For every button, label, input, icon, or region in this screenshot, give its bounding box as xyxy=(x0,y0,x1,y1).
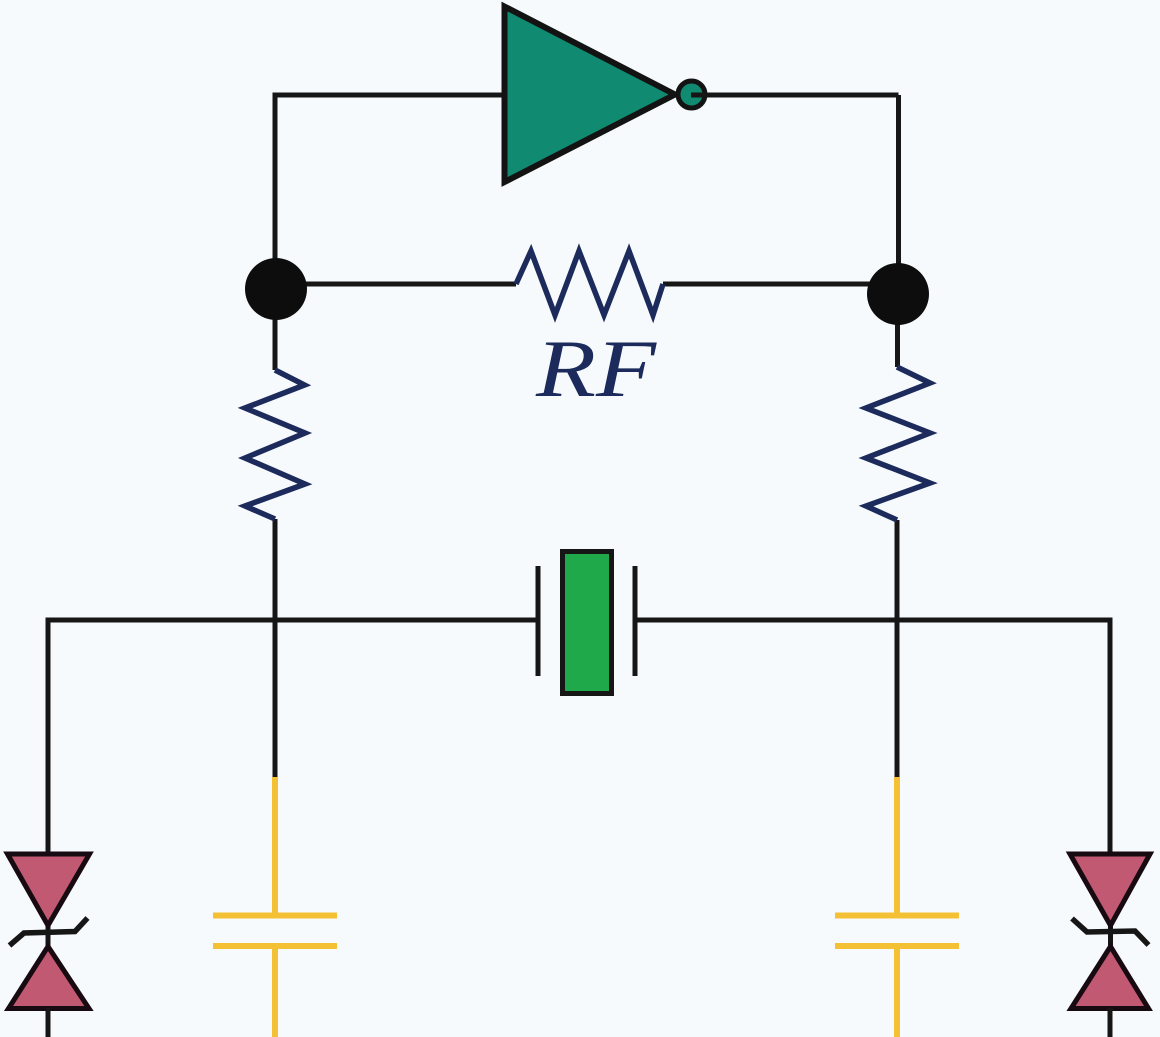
wire: resistor R2 down to capacitor C2 branch xyxy=(895,520,900,779)
capacitor C1 top plate xyxy=(213,913,337,919)
wire: left vertical from input corner down to node A xyxy=(273,93,278,290)
wire: resistor R1 down to capacitor C1 branch xyxy=(273,519,278,779)
wire: right vertical from output corner down to node B xyxy=(896,95,901,294)
TVS diode D2 zener bar xyxy=(1072,919,1149,946)
op-amp U1 inverter triangle xyxy=(505,7,676,183)
resistor RF zigzag xyxy=(516,251,663,315)
TVS diode D1 zener bar xyxy=(10,918,88,946)
wire: TVS D1 to bottom edge xyxy=(46,1008,51,1037)
TVS diode D2 upper triangle xyxy=(1070,854,1150,926)
wire: yellow lead into capacitor C1 xyxy=(272,777,278,914)
TVS diode D1 lower triangle xyxy=(9,947,90,1009)
wire: TVS D1 apex junction xyxy=(46,922,51,950)
wire: inverter input from left node up to inverter xyxy=(275,93,506,98)
resistor R1 zigzag xyxy=(245,370,305,519)
svg-text:RF: RF xyxy=(535,323,657,414)
wire: inverter output to right corner xyxy=(691,93,899,98)
wire: node A down to resistor R1 xyxy=(273,289,278,370)
wire: TVS D2 to bottom edge xyxy=(1108,1008,1113,1037)
wire: node A to RF resistor left lead xyxy=(290,282,516,287)
TVS diode D1 upper triangle xyxy=(8,854,90,926)
node B junction dot xyxy=(867,263,929,325)
capacitor C2 top plate xyxy=(835,913,959,919)
wire: capacitor C1 to bottom edge xyxy=(272,948,278,1037)
capacitor C1 bottom plate xyxy=(213,943,337,949)
wire: capacitor C2 to bottom edge xyxy=(894,948,900,1037)
wire: RF resistor right lead to node B xyxy=(663,282,898,287)
TVS diode D2 lower triangle xyxy=(1071,947,1149,1009)
wire: TVS D2 apex junction xyxy=(1108,922,1113,950)
capacitor C2 bottom plate xyxy=(835,943,959,949)
crystal Y1 right plate xyxy=(633,566,638,676)
wire: left bus from TVS D1 branch corner to crystal left plate xyxy=(48,620,538,856)
crystal Y1 left plate xyxy=(536,566,541,676)
wire: yellow lead into capacitor C2 xyxy=(894,777,900,914)
crystal Y1 body xyxy=(563,552,612,694)
resistor R2 zigzag xyxy=(866,367,930,520)
node A junction dot xyxy=(245,258,307,320)
wire: node B down to resistor R2 xyxy=(895,294,900,367)
wire: right bus from crystal right plate to TVS D2 branch corner xyxy=(635,620,1110,856)
op-amp U1 inversion bubble xyxy=(678,81,705,108)
